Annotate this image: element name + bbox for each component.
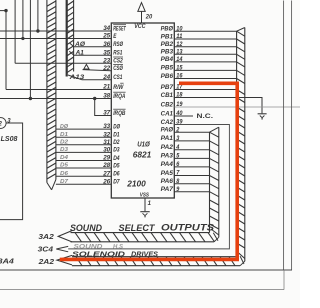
pin 4 PA2 label+number: [161, 144, 180, 151]
svg-text:VCC: VCC: [134, 24, 146, 30]
svg-text:D6: D6: [113, 171, 120, 178]
svg-text:PA6: PA6: [161, 178, 174, 185]
svg-text:PA4: PA4: [161, 161, 174, 168]
svg-text:E: E: [113, 33, 117, 40]
pin 6 PA4 label+number: [161, 161, 180, 168]
svg-text:PA5: PA5: [161, 170, 174, 177]
PB7 wire: [174, 89, 236, 91]
PB1 wire: [174, 38, 236, 40]
label A13: [68, 75, 85, 81]
pin 13 PB3 label+number: [161, 48, 183, 55]
svg-text:35: 35: [103, 49, 110, 56]
data wire D1: [56, 132, 111, 138]
label 6821: [133, 151, 152, 160]
vertical wire joining IRQA line: [29, 0, 32, 100]
svg-text:DØ: DØ: [113, 123, 121, 130]
SOLENOID DRIVES ribbon (horizontal, hatched): [72, 257, 240, 266]
pin 40 CA1 label+number: [161, 110, 183, 117]
svg-text:3: 3: [7, 119, 11, 125]
label 2100: [126, 179, 146, 188]
data wire D3: [56, 147, 111, 153]
pin 22 CS&#216; number+label: [102, 65, 123, 73]
data wire D7: [56, 179, 111, 185]
pin 28 D5 number+label: [102, 162, 120, 169]
svg-text:36: 36: [103, 41, 110, 48]
pin 24 CS1 number+label: [102, 74, 123, 81]
svg-text:D5: D5: [113, 162, 120, 169]
pin 32 D1 number+label: [103, 131, 120, 138]
svg-text:CA2: CA2: [161, 119, 174, 126]
svg-text:28: 28: [102, 162, 110, 169]
IC U10 6821 body: [111, 23, 174, 198]
svg-text:30: 30: [103, 147, 110, 154]
pin 29 D4 number+label: [102, 155, 120, 162]
pin 37 IRQB number+label: [103, 109, 126, 117]
svg-text:D7: D7: [113, 179, 120, 186]
svg-text:CS2: CS2: [113, 58, 123, 65]
svg-text:CS1: CS1: [113, 74, 123, 81]
PA0 wire: [174, 131, 209, 133]
svg-text:D2: D2: [113, 139, 120, 146]
PA output bus ribbon (vertical, hatched): [210, 127, 219, 242]
svg-text:SELECT: SELECT: [119, 223, 156, 233]
PB3 wire: [174, 53, 236, 55]
text SOLENOID DRIVES: [72, 249, 158, 258]
svg-text:N.C.: N.C.: [197, 113, 214, 120]
svg-text:DRIVES: DRIVES: [131, 249, 158, 258]
PB6 wire: [174, 78, 236, 80]
CB2 wire (gray, off right): [174, 106, 300, 108]
svg-text:PA7: PA7: [161, 186, 174, 193]
label LS08: [1, 136, 18, 143]
svg-text:21: 21: [102, 84, 110, 91]
svg-text:RESET: RESET: [113, 25, 126, 32]
data wire D4: [56, 155, 111, 161]
svg-text:VSS: VSS: [140, 192, 149, 198]
svg-text:CSØ: CSØ: [113, 65, 123, 72]
svg-text:PB4: PB4: [161, 56, 174, 63]
vertical wire joining RESET line: [36, 0, 39, 33]
pin 16 PB6 label+number: [161, 73, 183, 80]
vertical wire to CS2: [14, 0, 16, 63]
svg-text:6821: 6821: [133, 151, 152, 160]
svg-text:PA1: PA1: [161, 135, 174, 142]
PA7 wire: [174, 191, 209, 193]
pin 19 CB2 label+number: [161, 101, 183, 108]
svg-text:CB1: CB1: [161, 92, 174, 99]
CS2 wire (pin 23): [15, 62, 111, 64]
svg-text:38: 38: [103, 93, 110, 100]
address/data bus bar (left, hatched): [47, 0, 56, 190]
svg-text:PB1: PB1: [161, 33, 174, 40]
pin 9 PA7 label+number: [161, 186, 180, 193]
wire A1 to RS1: [69, 51, 111, 55]
PB0 wire: [174, 30, 236, 32]
pin 30 D3 number+label: [103, 147, 120, 154]
svg-text:DØ: DØ: [60, 124, 69, 130]
svg-text:D4: D4: [60, 155, 69, 161]
svg-text:1: 1: [148, 201, 152, 207]
svg-text:32: 32: [103, 131, 110, 138]
svg-text:26: 26: [102, 178, 110, 185]
pin 17 PB7 label+number: [161, 84, 183, 91]
svg-text:3C4: 3C4: [38, 247, 54, 254]
pin 7 PA5 label+number: [161, 170, 180, 177]
E wire (pin 25): [0, 38, 111, 40]
pin 27 D6 number+label: [102, 170, 120, 177]
svg-text:2: 2: [0, 122, 3, 128]
pin 31 D2 number+label: [103, 139, 120, 146]
svg-text:A13: A13: [68, 75, 85, 81]
svg-text:CB2: CB2: [161, 101, 174, 108]
svg-text:SOLENOID: SOLENOID: [72, 249, 126, 258]
svg-text:A1: A1: [75, 51, 85, 57]
svg-text:D5: D5: [60, 163, 69, 169]
svg-text:OUTPUTS: OUTPUTS: [161, 222, 215, 232]
svg-text:R/W: R/W: [113, 84, 124, 91]
svg-text:23: 23: [102, 57, 110, 64]
VSS ground (pin 1): [140, 198, 151, 217]
IRQA wire (pin 38): [0, 97, 111, 100]
label U10: [137, 139, 150, 148]
arrow 3A2: [58, 231, 72, 242]
label 2A2: [37, 259, 54, 266]
label 3A2: [38, 234, 54, 241]
svg-text:PB3: PB3: [161, 49, 174, 56]
svg-text:IRQA: IRQA: [113, 93, 126, 100]
svg-text:PB7: PB7: [161, 84, 174, 91]
svg-text:25: 25: [102, 33, 110, 40]
pin 34 RESET number+label: [103, 25, 126, 33]
pin 12 PB2 label+number: [161, 41, 183, 48]
svg-text:PAØ: PAØ: [161, 127, 174, 134]
svg-text:PB5: PB5: [161, 65, 174, 72]
pin 35 RS1 number+label: [103, 49, 123, 56]
pin 11 PB1 label+number: [161, 33, 183, 40]
CA2 sound wire down to 3C4: [68, 125, 229, 249]
svg-text:D1: D1: [113, 132, 120, 139]
svg-text:22: 22: [102, 65, 110, 72]
PA5 wire: [174, 175, 209, 177]
pin 33 D&#216; number+label: [103, 123, 121, 130]
svg-text:D6: D6: [60, 171, 69, 177]
PA1 wire: [174, 140, 209, 142]
svg-text:D4: D4: [113, 155, 120, 162]
pin 14 PB4 label+number: [161, 56, 183, 63]
svg-text:D3: D3: [60, 147, 69, 153]
label 3C4: [38, 247, 54, 254]
svg-text:34: 34: [103, 25, 110, 32]
PB4 wire: [174, 61, 236, 63]
svg-text:PA3: PA3: [161, 153, 174, 160]
address bus bar 2 (hatched, thick left edge): [67, 0, 74, 77]
CA1 wire N.C.: [174, 113, 213, 120]
svg-text:33: 33: [103, 123, 110, 130]
label 8A4 (clipped): [0, 258, 14, 265]
PB5 wire: [174, 69, 236, 71]
wire A0 to RS0: [69, 43, 111, 47]
CS0 wire (pin 22): [83, 70, 112, 71]
data wire D5: [56, 163, 111, 169]
svg-text:D3: D3: [113, 147, 120, 154]
svg-text:PBØ: PBØ: [161, 26, 174, 33]
pin 21 R/W number+label: [102, 83, 124, 91]
svg-text:CA1: CA1: [161, 110, 174, 117]
svg-text:PB6: PB6: [161, 73, 174, 80]
pin 25 E number+label: [102, 33, 117, 40]
svg-text:U1Ø: U1Ø: [137, 139, 150, 148]
svg-text:24: 24: [102, 74, 110, 81]
PA2 wire: [174, 149, 209, 151]
wire A13 to CS1 from bus end: [68, 75, 111, 80]
label A1: [75, 51, 85, 57]
pin 26 D7 number+label: [102, 178, 120, 185]
svg-text:IRQB: IRQB: [113, 110, 126, 117]
label VSS: [140, 192, 149, 198]
wire from gate down to lower left: [0, 123, 23, 220]
pin 10 PB&#216; label+number: [161, 25, 183, 32]
pin 2 PA&#216; label+number: [161, 126, 180, 133]
red highlighted solenoid trace (PB6): [60, 83, 237, 259]
pin 8 PA6 label+number: [161, 178, 180, 185]
PA3 wire: [174, 157, 209, 159]
data wire D6: [56, 171, 111, 177]
arrow 3C4 (small): [56, 246, 68, 251]
pin 18 CB1 label+number: [161, 92, 183, 99]
RESET wire (pin 34): [0, 30, 111, 32]
svg-text:RS1: RS1: [113, 50, 123, 57]
svg-text:20: 20: [145, 15, 153, 21]
PB output bus ribbon (vertical, hatched): [237, 28, 245, 266]
text SOUND H.S (faint): [74, 243, 124, 250]
svg-text:AØ: AØ: [74, 42, 85, 48]
R/W wire (pin 21): [6, 89, 111, 91]
VCC supply arrow (pin 20): [134, 3, 153, 31]
svg-text:3A2: 3A2: [38, 234, 54, 241]
svg-text:2100: 2100: [126, 179, 146, 188]
vertical wire joining E line: [21, 0, 24, 40]
PA4 wire: [174, 166, 209, 168]
pin 39 CA2 label+number: [161, 119, 183, 126]
svg-text:PA2: PA2: [161, 144, 174, 151]
IRQB branch wire (pin 37): [95, 99, 112, 116]
gate reference bubble 2 (LS08): [0, 118, 11, 129]
svg-text:27: 27: [102, 170, 110, 177]
vertical wire to R/W: [5, 11, 7, 90]
svg-text:RSØ: RSØ: [113, 41, 124, 48]
CB1 wire to ground: [174, 98, 262, 114]
pin 3 PA1 label+number: [161, 135, 180, 142]
frame vertical line (right inner): [283, 1, 285, 271]
data wire D2: [56, 140, 111, 146]
PB2 wire: [174, 46, 236, 48]
svg-text:D7: D7: [60, 179, 69, 185]
svg-text:D2: D2: [60, 140, 69, 146]
svg-text:LS08: LS08: [1, 136, 18, 143]
frame lower gray border: [0, 270, 284, 289]
text SOUND SELECT OUTPUTS: [70, 222, 215, 233]
frame vertical line (right outer): [291, 1, 293, 271]
svg-text:2A2: 2A2: [37, 259, 54, 266]
svg-text:8A4: 8A4: [0, 258, 14, 265]
SOUND SELECT OUTPUTS ribbon (horizontal, hatched): [71, 233, 215, 242]
wire stub at left edge with junction dot: [0, 9, 8, 12]
triangle marker on CS0 wire: [84, 64, 89, 69]
svg-text:SOUND: SOUND: [70, 223, 102, 233]
pin 38 IRQA number+label: [103, 92, 126, 100]
PA6 wire: [174, 183, 209, 185]
svg-text:29: 29: [102, 155, 110, 162]
data wire D0: [56, 124, 111, 130]
pin 15 PB5 label+number: [161, 65, 183, 72]
frame horizontal line: [0, 269, 292, 271]
pin 5 PA3 label+number: [161, 153, 180, 160]
label A0: [74, 42, 85, 48]
svg-text:D1: D1: [60, 132, 68, 138]
arrow 2A2: [57, 255, 72, 265]
pin 36 RS&#216; number+label: [103, 41, 124, 48]
ground symbol (CB1): [258, 114, 267, 119]
svg-text:PB2: PB2: [161, 41, 174, 48]
svg-text:37: 37: [103, 110, 110, 117]
pin 23 CS2 number+label: [102, 57, 123, 65]
svg-text:31: 31: [103, 139, 110, 146]
